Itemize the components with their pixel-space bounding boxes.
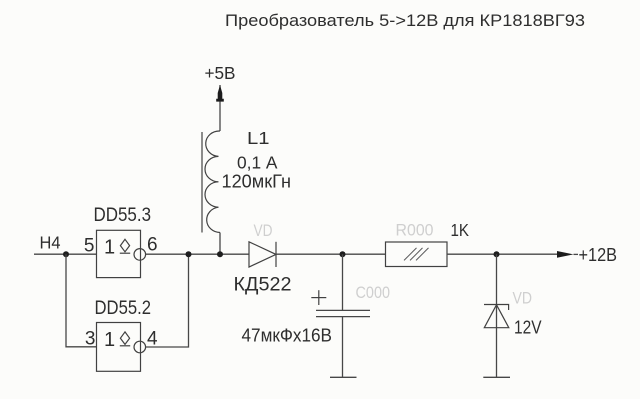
zener diode VD 12V — [484, 305, 509, 328]
inductor L1 — [202, 131, 220, 233]
svg-text:47мкФх16В: 47мкФх16В — [242, 324, 333, 345]
svg-text:1: 1 — [104, 236, 115, 258]
resistor R000 — [386, 242, 448, 267]
svg-text:C000: C000 — [356, 284, 391, 302]
logic gate DD55.3 — [97, 230, 146, 277]
svg-text:6: 6 — [147, 234, 158, 255]
wire — [496, 254, 498, 377]
wire — [342, 254, 344, 310]
wire — [34, 253, 97, 255]
power +5V — [205, 63, 236, 102]
junction — [186, 251, 192, 257]
svg-text:VD: VD — [254, 222, 273, 240]
svg-text:VD: VD — [513, 290, 533, 308]
svg-text:Преобразователь 5->12В для КР1: Преобразователь 5->12В для КР1818ВГ93 — [225, 11, 585, 30]
svg-text:1: 1 — [104, 329, 115, 351]
svg-text:0,1 А: 0,1 А — [237, 152, 278, 172]
logic gate DD55.2 — [97, 323, 146, 372]
junction — [63, 251, 69, 257]
svg-text:+5В: +5В — [205, 63, 236, 83]
svg-text:1K: 1K — [451, 220, 470, 240]
svg-text:R000: R000 — [396, 221, 434, 239]
junction — [340, 251, 346, 257]
junction — [494, 251, 500, 257]
wire — [276, 253, 386, 255]
power +12V — [557, 244, 617, 265]
ground — [483, 376, 510, 378]
capacitor C000 — [311, 290, 370, 316]
wire — [146, 253, 249, 255]
svg-text:5: 5 — [84, 235, 95, 256]
wire — [219, 233, 221, 255]
svg-text:КД522: КД522 — [234, 275, 292, 296]
wire — [219, 102, 221, 132]
wire — [447, 253, 557, 255]
junction — [217, 251, 223, 257]
svg-text:120мкГн: 120мкГн — [222, 171, 292, 191]
svg-text:12V: 12V — [514, 317, 542, 338]
diode VD КД522 — [249, 242, 276, 267]
ground — [330, 376, 357, 378]
wire — [342, 317, 344, 378]
svg-text:3: 3 — [85, 329, 96, 350]
svg-text:DD55.3: DD55.3 — [94, 205, 152, 226]
svg-text:DD55.2: DD55.2 — [95, 298, 152, 319]
svg-text:+12В: +12В — [579, 244, 618, 265]
svg-text:H4: H4 — [40, 233, 61, 253]
wire — [66, 254, 97, 347]
wire — [146, 254, 189, 347]
svg-text:L1: L1 — [247, 128, 270, 148]
